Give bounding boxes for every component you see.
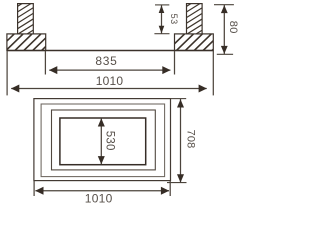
dim 53 bottom T-bar xyxy=(154,33,169,35)
dim 53 top T-bar xyxy=(155,4,169,6)
dim 835 left arrow xyxy=(49,66,57,74)
dim 1010 (top view) right arrow xyxy=(199,85,207,93)
dim 80 top T-bar xyxy=(214,4,234,6)
dim 530 down arrow xyxy=(98,156,105,164)
frame inner rectangle (opening) xyxy=(60,118,146,165)
right bracket base (cross-section, hatched) xyxy=(175,34,214,51)
frame top edge extension (for 708) xyxy=(171,98,187,100)
svg-text:80: 80 xyxy=(227,21,239,34)
dim 530 up arrow xyxy=(98,118,105,126)
dim 835 line xyxy=(49,69,170,71)
svg-text:1010: 1010 xyxy=(96,74,124,88)
right bracket post (cross-section, hatched) xyxy=(187,4,203,34)
dim 53 up arrow xyxy=(159,5,165,13)
dim 1010 (front view) left arrow xyxy=(35,187,43,195)
dim 1010 (top view) left arrow xyxy=(11,85,19,93)
dim 1010 (top view) line xyxy=(11,88,207,90)
frame second rectangle xyxy=(41,104,165,177)
dim 1010 (top view) right extension line xyxy=(212,51,214,95)
dim 1010 (top view) left extension line xyxy=(6,51,8,95)
dim 835 right arrow xyxy=(162,66,170,74)
frame outer rectangle (front view) xyxy=(34,99,171,181)
dim 80 up arrow xyxy=(221,5,228,13)
dim 1010 (front view) right extension line xyxy=(169,181,171,196)
dim 835 right extension line xyxy=(174,51,176,75)
deck line between brackets xyxy=(7,50,213,52)
dim 835 left extension line xyxy=(44,51,46,75)
left bracket post (cross-section, hatched) xyxy=(18,4,34,34)
dim 1010 (front view) line xyxy=(35,190,169,192)
svg-text:835: 835 xyxy=(95,54,117,68)
dim 708 up arrow xyxy=(177,99,184,107)
frame third rectangle xyxy=(52,110,156,170)
dim 708 line xyxy=(180,99,182,182)
dim 1010 (front view) right arrow xyxy=(161,187,169,195)
svg-text:1010: 1010 xyxy=(85,191,113,205)
svg-text:53: 53 xyxy=(169,14,179,25)
dim 708 down arrow xyxy=(177,174,184,182)
dim 80 down arrow xyxy=(221,46,228,54)
svg-text:530: 530 xyxy=(103,131,115,151)
dim 80 line xyxy=(223,5,225,54)
dim 53 down arrow xyxy=(159,26,165,34)
dim 530 line xyxy=(100,118,102,164)
svg-text:708: 708 xyxy=(184,130,196,149)
left bracket base (cross-section, hatched) xyxy=(7,34,46,51)
dim 53 line xyxy=(161,5,163,33)
frame bottom extension line (for 708) xyxy=(167,182,187,184)
dim 80 bottom T-bar xyxy=(217,53,233,55)
dim 1010 (front view) left extension line xyxy=(33,181,35,196)
